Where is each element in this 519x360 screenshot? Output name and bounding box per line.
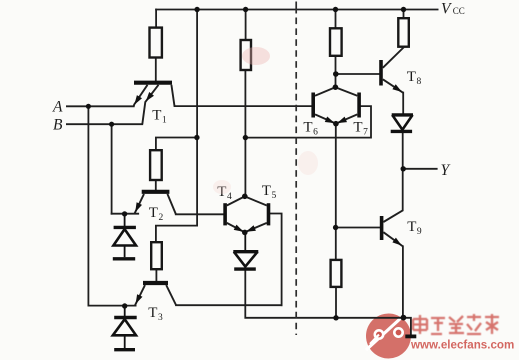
svg-text:CC: CC [453, 6, 465, 16]
wire Vcc rail [156, 9, 438, 11]
transistor T5 [245, 196, 269, 232]
svg-text:A: A [52, 99, 63, 116]
wire T5 base right and down to T3 collector line [270, 214, 282, 306]
node rail dot 3 [333, 7, 338, 12]
node B input wire [67, 123, 142, 125]
svg-text:7: 7 [363, 128, 368, 138]
resistor R2 [241, 40, 251, 70]
transistor T3 [135, 283, 176, 305]
transistor T9 [382, 210, 403, 246]
svg-text:T: T [148, 305, 157, 321]
ground bar bottom right [405, 334, 416, 338]
wire T8 base line [336, 73, 380, 75]
char 4 [467, 314, 481, 334]
label Vcc [441, 1, 465, 18]
transistor T8 [381, 47, 404, 93]
svg-text:T: T [152, 108, 161, 124]
label T5 [262, 183, 277, 201]
node bottom right junction [401, 315, 407, 321]
node T9 base junction [333, 225, 338, 230]
svg-text:9: 9 [417, 227, 422, 237]
resistor R7 [150, 150, 162, 180]
wire B drop vertical [111, 124, 113, 214]
node B junction [109, 122, 114, 127]
wire D2 to Y junction and down to T9 collector [402, 132, 404, 211]
node T6/T7 emitter junction [333, 121, 339, 127]
svg-text:6: 6 [313, 128, 318, 138]
transistor T7 [335, 87, 359, 123]
svg-text:B: B [53, 117, 63, 134]
transistor T6 [313, 87, 336, 123]
watermark chinese text strokes [413, 314, 499, 334]
char 2 [431, 318, 445, 334]
svg-text:T: T [407, 69, 416, 85]
wire T1 collector to T6 base [175, 105, 312, 107]
wire ground stub bottom right [403, 318, 411, 335]
wire T7 base return path [245, 106, 371, 138]
wire diode D3 down and bottom rail [245, 269, 403, 318]
svg-text:5: 5 [272, 191, 277, 201]
label T8 [407, 69, 422, 87]
svg-text:www.elecfans.com: www.elecfans.com [410, 339, 514, 352]
wire T8 emitter down to diode D2 [402, 93, 404, 114]
node T8 base branch [333, 71, 339, 77]
svg-text:2: 2 [159, 213, 164, 223]
node A junction [86, 104, 91, 109]
svg-text:3: 3 [158, 313, 163, 323]
wire vertical from rail x197 down [156, 10, 197, 243]
wire branch dot197 to resistor above T2 [156, 138, 197, 151]
resistor R5 [331, 260, 342, 287]
transistor T2 [135, 192, 176, 214]
resistor R3 [330, 28, 342, 56]
node rail dot 2 [243, 7, 248, 12]
node T7 base return [243, 135, 248, 140]
char 5 [485, 314, 499, 334]
label T4 [217, 184, 232, 202]
svg-text:T: T [262, 183, 271, 199]
label T1 [152, 108, 167, 126]
node rail dot 4 [401, 7, 406, 12]
svg-text:1: 1 [162, 116, 167, 126]
char 3 [449, 316, 464, 333]
svg-text:4: 4 [227, 192, 232, 202]
wire Y output stub [404, 168, 437, 170]
transistor T4 [225, 196, 245, 232]
node T2 emitter clamp [122, 211, 127, 216]
node T3 emitter clamp [122, 303, 127, 308]
svg-text:T: T [407, 219, 416, 235]
diode D4 input clamp lower [113, 306, 137, 350]
wire rail left corner down to R1 [155, 10, 157, 29]
wire R2 bottom down to T4 top junction [244, 70, 246, 196]
resistor R6 [151, 242, 162, 269]
char 1 [413, 315, 427, 334]
node T4/T5 collector junction [242, 194, 248, 200]
wire R3 bottom to T6/T7 top [335, 56, 337, 87]
diode D1 input clamp upper [113, 214, 136, 259]
node Y junction [401, 166, 406, 171]
transistor T1 (multi-emitter) [134, 83, 175, 125]
wire T3 collector horizontal [176, 304, 282, 306]
svg-text:Y: Y [441, 162, 451, 179]
wire R6 bottom to T3 base [155, 269, 157, 281]
svg-text:T: T [303, 120, 312, 136]
label T2 [149, 205, 164, 223]
node bottom R5 junction [333, 315, 338, 320]
label T7 [353, 120, 368, 138]
wire R5 bottom to bottom rail [335, 287, 337, 318]
wire T9 base line [336, 227, 381, 229]
label T3 [148, 305, 163, 323]
wire R2 vertical from rail [245, 10, 247, 41]
wire T9 emitter down to bottom right [402, 246, 404, 317]
wire R1 bottom to T1 base [155, 58, 157, 81]
diode D3 under T4/T5 [233, 233, 258, 270]
resistor R4 [398, 18, 409, 47]
diode D2 under T8 [391, 115, 413, 131]
label T9 [407, 219, 422, 237]
node T4/T5 emitter junction [242, 230, 248, 236]
pink scan smudges [242, 47, 270, 65]
wire R3 vertical from rail [335, 10, 337, 29]
wire R4 vertical from rail [403, 10, 405, 19]
wire bottom left horizontal to T3 emitter [88, 305, 135, 307]
wire T6/T7 bottom junction down to T9 base junction and R5 [335, 124, 337, 260]
wire A drop long left vertical [87, 106, 89, 305]
svg-text:T: T [149, 205, 158, 221]
resistor R1 [150, 28, 162, 58]
node rail dot 1 [194, 7, 199, 12]
svg-text:V: V [441, 1, 452, 18]
svg-text:T: T [353, 120, 362, 136]
node A input wire [67, 105, 134, 107]
watermark logo circle [366, 314, 411, 359]
node T6/T7 collector junction [333, 84, 339, 90]
wire R7 bottom to T2 base [155, 180, 157, 190]
label T6 [303, 120, 318, 138]
wire T2 collector to T4 base [176, 213, 224, 215]
wire to T2 emitter [112, 213, 139, 215]
node x197 branch [194, 135, 199, 140]
svg-text:8: 8 [417, 77, 422, 87]
dashed partition line [295, 2, 297, 336]
